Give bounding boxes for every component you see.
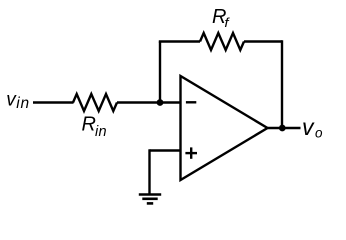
svg-text:o: o bbox=[315, 125, 323, 140]
plus sign at noninverting input bbox=[185, 152, 197, 154]
svg-text:v: v bbox=[302, 114, 315, 140]
wire R_in to op-amp inverting input bbox=[117, 101, 181, 103]
wire op-amp noninverting input bbox=[150, 149, 181, 151]
label v_o bbox=[302, 114, 323, 140]
wire feedback top right bbox=[244, 40, 282, 42]
svg-text:in: in bbox=[16, 95, 30, 112]
wire input from v_in to R_in bbox=[33, 101, 74, 103]
label v_in bbox=[6, 89, 30, 112]
minus sign at inverting input bbox=[186, 101, 196, 103]
wire vertical to ground bbox=[148, 149, 150, 193]
node junction at inverting input bbox=[157, 99, 164, 106]
svg-text:in: in bbox=[95, 124, 107, 140]
svg-text:f: f bbox=[224, 15, 230, 30]
svg-text:R: R bbox=[82, 114, 96, 136]
node junction at output bbox=[279, 125, 286, 132]
op-amp U1 triangle bbox=[181, 76, 268, 180]
label R_f bbox=[212, 6, 231, 30]
resistor Rf bbox=[200, 33, 244, 50]
wire output to v_o bbox=[268, 127, 301, 129]
wire feedback vertical left bbox=[159, 42, 161, 103]
ground symbol bbox=[139, 195, 161, 204]
wire feedback top left bbox=[159, 40, 200, 42]
resistor R_in bbox=[73, 94, 117, 111]
label R_in bbox=[82, 114, 107, 140]
wire feedback vertical right down to output bbox=[281, 40, 283, 128]
